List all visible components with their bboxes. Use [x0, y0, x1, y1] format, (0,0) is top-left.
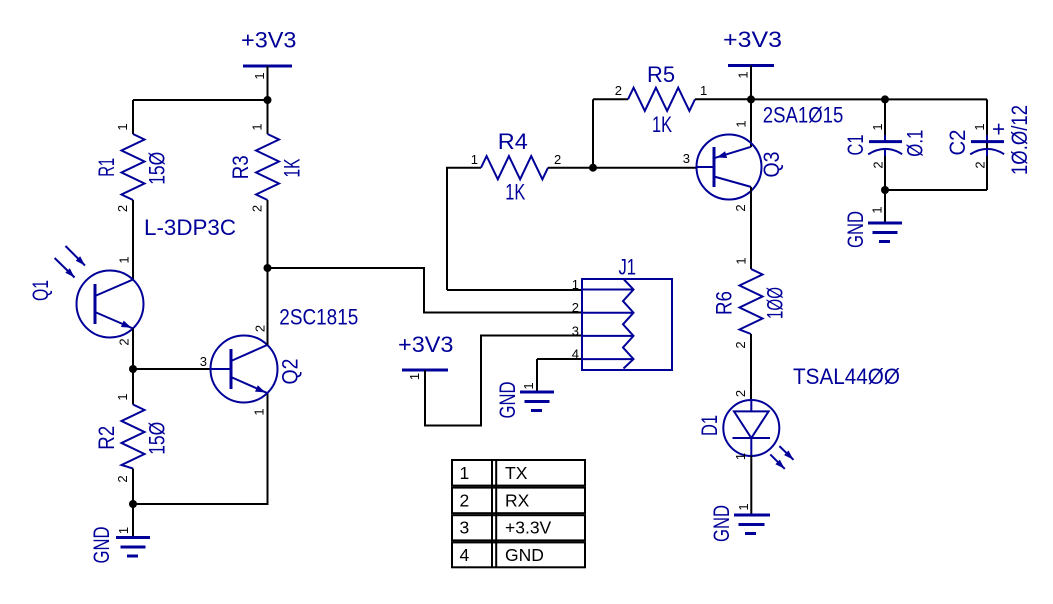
wire bottom cap bus — [885, 189, 987, 191]
pin table row 1 — [452, 460, 585, 486]
wire GND to J1 pin4 — [537, 358, 582, 360]
svg-text:2: 2 — [871, 161, 886, 168]
svg-text:3: 3 — [572, 323, 579, 338]
power +3V3 (right) symbol bar — [728, 66, 774, 100]
svg-text:1: 1 — [252, 408, 267, 415]
svg-text:1K: 1K — [280, 159, 305, 178]
node R2 bottom junction — [129, 500, 137, 508]
svg-text:2: 2 — [733, 204, 748, 211]
svg-text:1: 1 — [733, 453, 748, 460]
svg-text:1: 1 — [736, 503, 751, 510]
svg-text:4: 4 — [460, 545, 470, 565]
pin table row 2 — [452, 488, 585, 514]
svg-text:Ø.1: Ø.1 — [903, 130, 928, 157]
resistor R4 — [447, 156, 593, 290]
svg-text:3: 3 — [683, 151, 690, 166]
svg-text:RX: RX — [505, 490, 530, 510]
svg-text:J1: J1 — [619, 255, 637, 280]
wire Q1 emitter to node — [132, 329, 134, 370]
svg-text:1K: 1K — [652, 112, 672, 137]
svg-text:1: 1 — [117, 256, 132, 263]
svg-text:2: 2 — [115, 205, 130, 212]
svg-text:Q2: Q2 — [278, 359, 303, 385]
power +3V3 (middle) symbol bar — [402, 336, 582, 426]
svg-text:C1: C1 — [843, 135, 868, 156]
svg-text:1: 1 — [972, 123, 987, 130]
node top-right junction — [747, 95, 755, 103]
svg-text:2SC1815: 2SC1815 — [279, 305, 358, 330]
svg-text:1: 1 — [115, 393, 130, 400]
svg-text:15Ø: 15Ø — [145, 152, 170, 185]
svg-text:L-3DP3C: L-3DP3C — [144, 215, 236, 240]
svg-text:1: 1 — [252, 72, 267, 79]
phototransistor Q1 — [77, 271, 144, 338]
svg-text:2SA1Ø15: 2SA1Ø15 — [763, 103, 844, 128]
svg-text:1: 1 — [521, 382, 536, 389]
svg-text:+3V3: +3V3 — [398, 332, 454, 357]
svg-text:Q1: Q1 — [28, 280, 53, 301]
svg-text:+3.3V: +3.3V — [505, 518, 552, 538]
svg-text:Q3: Q3 — [759, 152, 784, 178]
LED D1 — [723, 400, 779, 515]
wire node to J1 pin2 — [268, 268, 583, 313]
svg-text:3: 3 — [460, 518, 470, 538]
svg-text:+3V3: +3V3 — [241, 28, 297, 53]
svg-text:R4: R4 — [498, 129, 528, 154]
resistor R2 — [122, 369, 145, 504]
svg-text:2: 2 — [117, 338, 132, 345]
power +3V3 (left) symbol bar — [243, 66, 292, 100]
wire node up to R5 — [592, 99, 594, 167]
svg-text:2: 2 — [733, 390, 748, 397]
pin table row 4 — [452, 542, 585, 567]
resistor R3 — [256, 100, 279, 268]
node at R3 top — [264, 96, 272, 104]
D1 light arrow 1 — [779, 446, 793, 460]
svg-text:1: 1 — [115, 123, 130, 130]
svg-text:GND: GND — [843, 211, 868, 248]
svg-text:GND: GND — [709, 505, 734, 542]
capacitor C2 — [970, 135, 1004, 156]
svg-text:1: 1 — [734, 257, 749, 264]
svg-text:1: 1 — [471, 152, 478, 167]
svg-text:C2: C2 — [945, 130, 970, 156]
svg-text:2: 2 — [572, 300, 579, 315]
capacitor C1 — [868, 99, 902, 190]
wire R2 bottom to Q2 emitter — [133, 393, 268, 504]
resistor R6 — [740, 269, 763, 401]
resistor R1 — [122, 100, 145, 280]
ground GND (under D1) — [734, 515, 770, 534]
wire top-left horizontal — [133, 99, 268, 101]
svg-text:1: 1 — [460, 463, 470, 483]
node C1 bottom — [881, 186, 889, 194]
svg-text:2: 2 — [973, 161, 988, 168]
svg-text:1: 1 — [407, 373, 422, 380]
svg-text:1Ø.Ø/12: 1Ø.Ø/12 — [1007, 105, 1032, 175]
svg-text:1: 1 — [870, 206, 885, 213]
ground GND (left) — [116, 504, 150, 556]
Q1 light arrow 2 — [55, 258, 75, 278]
svg-text:R3: R3 — [228, 155, 253, 179]
svg-text:2: 2 — [253, 325, 268, 332]
svg-text:+3V3: +3V3 — [723, 27, 782, 52]
node Q1-R2-Q2base junction — [129, 365, 137, 373]
D1 light arrow 2 — [770, 454, 785, 469]
svg-text:1: 1 — [116, 527, 131, 534]
wire node to Q3 base — [593, 167, 697, 169]
svg-text:GND: GND — [505, 545, 544, 565]
wire R4 to J1 pin1 — [447, 289, 582, 291]
node R4-R5-Q3 base junction — [589, 164, 597, 172]
wire Q2 collector up to node — [267, 268, 269, 345]
svg-text:1: 1 — [572, 277, 579, 292]
svg-text:1K: 1K — [505, 180, 525, 205]
transistor Q3 2SA1015 — [697, 99, 762, 269]
wire node to Q2 base — [133, 368, 211, 370]
svg-text:D1: D1 — [697, 415, 722, 436]
svg-text:GND: GND — [89, 527, 114, 564]
pin table row 3 — [452, 515, 585, 540]
svg-text:1: 1 — [250, 123, 265, 130]
svg-text:GND: GND — [495, 382, 520, 419]
svg-text:2: 2 — [460, 490, 470, 510]
svg-text:4: 4 — [572, 347, 579, 362]
svg-text:2: 2 — [615, 83, 622, 98]
pin table column divider — [492, 460, 496, 567]
wire right vertical C2 — [986, 99, 988, 190]
resistor R5 — [593, 88, 751, 111]
svg-text:2: 2 — [115, 475, 130, 482]
ground GND (right) — [868, 190, 902, 242]
connector J1 — [582, 279, 672, 370]
node R3 bottom junction — [264, 264, 272, 272]
svg-text:R6: R6 — [712, 291, 737, 315]
svg-text:R1: R1 — [94, 158, 119, 177]
svg-text:1ØØ: 1ØØ — [763, 287, 788, 319]
Q1 light arrow 1 — [66, 246, 86, 266]
svg-text:R5: R5 — [647, 62, 675, 87]
svg-text:1: 1 — [734, 120, 749, 127]
svg-text:15Ø: 15Ø — [145, 422, 170, 455]
svg-text:R2: R2 — [94, 426, 119, 450]
svg-text:2: 2 — [554, 152, 561, 167]
svg-text:1: 1 — [700, 83, 707, 98]
svg-text:2: 2 — [733, 341, 748, 348]
ground GND (middle) — [520, 359, 554, 411]
svg-text:1: 1 — [736, 71, 751, 78]
svg-text:TX: TX — [505, 463, 528, 483]
svg-text:3: 3 — [200, 354, 207, 369]
svg-text:1: 1 — [870, 123, 885, 130]
svg-text:2: 2 — [250, 205, 265, 212]
node C1 top — [881, 95, 889, 103]
transistor Q2 2SC1815 — [211, 336, 278, 403]
svg-text:TSAL44ØØ: TSAL44ØØ — [793, 364, 900, 389]
wire node to caps — [751, 98, 987, 100]
